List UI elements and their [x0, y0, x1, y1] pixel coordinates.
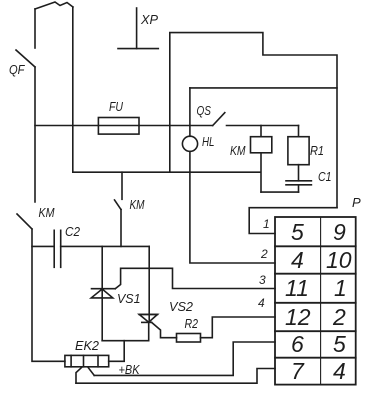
svg-text:XP: XP [140, 12, 158, 27]
svg-text:4: 4 [291, 247, 304, 273]
supply break squiggle [35, 2, 73, 9]
svg-text:QS: QS [197, 103, 212, 118]
thyristor VS2 [139, 299, 194, 341]
capacitor C1 [286, 169, 332, 192]
svg-text:R1: R1 [310, 143, 324, 158]
svg-text:12: 12 [285, 304, 311, 330]
svg-text:10: 10 [326, 247, 352, 273]
svg-text:1: 1 [263, 217, 270, 231]
resistor R1 [288, 126, 324, 181]
svg-text:VS2: VS2 [169, 299, 194, 314]
svg-text:2: 2 [260, 247, 268, 261]
wire: supply rail A upper [34, 9, 36, 48]
wire: BK to pin 5 [94, 342, 275, 375]
svg-text:C2: C2 [65, 224, 81, 239]
sensor BK [76, 362, 141, 383]
wire: coil bottom link [261, 191, 299, 193]
wire: pin 2 drop [190, 172, 275, 263]
svg-text:7: 7 [291, 358, 305, 384]
connector P table [275, 217, 356, 385]
svg-text:VS1: VS1 [117, 291, 141, 306]
svg-text:3: 3 [259, 273, 266, 287]
svg-text:R2: R2 [185, 316, 199, 331]
wire: R2 to pin 4 [201, 317, 276, 338]
svg-text:C1: C1 [318, 169, 332, 184]
svg-text:1: 1 [334, 275, 347, 301]
wire: bus1 right segment [227, 125, 299, 127]
connector XP [118, 8, 158, 49]
wire: supply rail B [72, 7, 74, 172]
wire: VS2 gate [152, 322, 177, 337]
wire: bus1 middle segment [139, 125, 213, 127]
svg-text:KM: KM [39, 205, 55, 220]
lamp HL [182, 134, 214, 151]
wire: bus2 left [32, 245, 54, 247]
svg-text:6: 6 [291, 331, 304, 357]
svg-text:2: 2 [332, 304, 346, 330]
heater EK2 [65, 338, 109, 367]
circuit breaker QF [9, 50, 35, 77]
wire: HL branch lower [189, 151, 191, 172]
wire: bus2 right [61, 245, 150, 247]
svg-text:4: 4 [333, 358, 346, 384]
diode VS1 [91, 246, 140, 340]
wire: return bus [73, 171, 260, 173]
wire: VS1 cathode jog to pin 3 [115, 268, 275, 288]
svg-text:11: 11 [285, 275, 309, 301]
contactor contact KM (middle) [115, 172, 145, 246]
wire: left rail lower [32, 229, 65, 361]
device outline (top boundary) [170, 33, 337, 208]
wire: VS2 anode drop [148, 246, 150, 322]
fuse FU [98, 99, 139, 134]
capacitor C2 [54, 224, 80, 267]
wire: supply rail A middle [34, 67, 36, 202]
svg-text:4: 4 [258, 296, 265, 310]
contactor coil KM [230, 126, 272, 193]
contactor contact KM (left) [17, 205, 55, 229]
svg-text:KM: KM [230, 143, 246, 158]
wire: feed to connector pin 1 [249, 208, 337, 234]
svg-text:FU: FU [109, 99, 123, 114]
svg-text:QF: QF [9, 62, 25, 77]
resistor R2 [177, 316, 201, 342]
svg-text:5: 5 [333, 331, 346, 357]
wire: HL top feed [190, 87, 337, 89]
wire: HL branch upper [189, 88, 191, 136]
wire: bus1 left segment [35, 125, 98, 127]
svg-text:EK2: EK2 [75, 338, 100, 353]
svg-text:P: P [352, 195, 361, 210]
svg-text:9: 9 [333, 219, 346, 245]
svg-text:5: 5 [291, 219, 304, 245]
disconnector QS [197, 103, 225, 126]
svg-text:KM: KM [130, 197, 145, 212]
wire: BK to pin 6 [76, 369, 275, 384]
wire: EK2 right riser [109, 341, 125, 362]
svg-text:HL: HL [202, 134, 215, 149]
wire: VS1-VS2 junction [102, 340, 149, 342]
